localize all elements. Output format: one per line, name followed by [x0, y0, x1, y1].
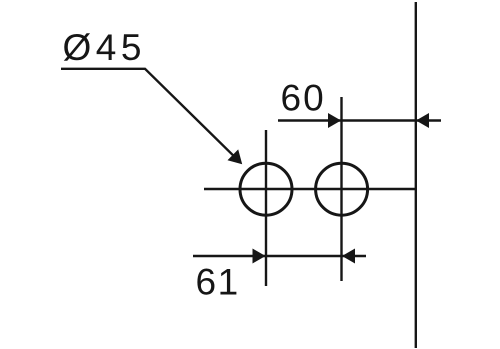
vertical centerline left hole	[265, 130, 267, 286]
vertical centerline right hole	[340, 97, 342, 281]
arrowhead dim60 left-pointing at x=415.5	[416, 113, 429, 128]
arrowhead dim61 left-pointing at x=341.5	[342, 249, 355, 264]
svg-text:60: 60	[281, 78, 326, 119]
dimension line 60	[278, 119, 441, 121]
part edge vertical line	[415, 2, 417, 348]
hole circle right	[316, 163, 368, 215]
hole circle left	[240, 163, 292, 215]
leader arrowhead	[228, 149, 243, 164]
dimension line 61	[193, 255, 366, 257]
arrowhead dim60 right-pointing at x=341.5	[328, 113, 341, 128]
svg-text:61: 61	[196, 262, 240, 303]
leader line for diameter callout	[61, 69, 236, 158]
svg-text:Ø45: Ø45	[63, 27, 146, 68]
arrowhead dim61 right-pointing at x=266	[253, 249, 266, 264]
horizontal centerline through holes	[204, 188, 416, 190]
